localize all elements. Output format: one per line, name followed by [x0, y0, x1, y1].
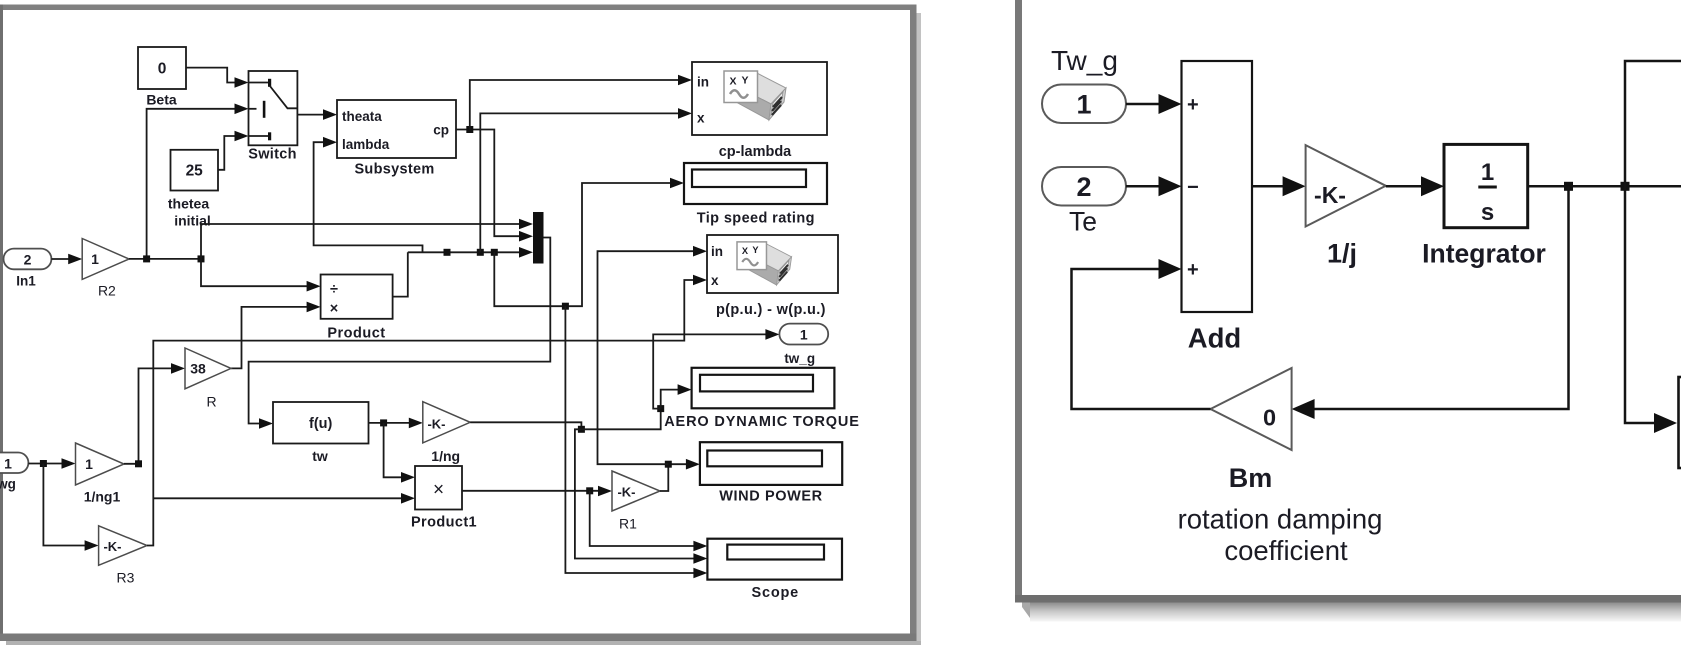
wire R1 out to WIND POWER: [660, 464, 687, 491]
svg-text:÷: ÷: [330, 282, 338, 298]
junction dot R1 out: [665, 461, 672, 468]
junction dot lambda 494: [491, 249, 498, 256]
svg-text:×: ×: [433, 480, 444, 501]
svg-text:Tip speed rating: Tip speed rating: [697, 210, 815, 226]
wire lambda branch up to Subsystem lambda: [314, 142, 423, 252]
mux block: [533, 212, 544, 264]
arrowhead f(u) in: [259, 418, 273, 429]
arrowhead Bm in (pointing left): [1292, 399, 1315, 419]
svg-text:-K-: -K-: [427, 416, 445, 431]
arrowhead Switch in1: [235, 77, 249, 88]
junction dot lambda 447: [444, 249, 451, 256]
svg-text:x: x: [711, 273, 719, 288]
svg-text:Subsystem: Subsystem: [354, 162, 434, 178]
arrowhead cp-lambda in: [678, 75, 692, 86]
svg-text:1: 1: [4, 455, 12, 471]
svg-text:×: ×: [330, 301, 338, 317]
right window frame left border: [1015, 0, 1022, 602]
xy-graph block cp-lambda: [692, 62, 827, 135]
svg-text:Tw_g: Tw_g: [1051, 45, 1118, 76]
svg-text:p(p.u.) - w(p.u.): p(p.u.) - w(p.u.): [716, 302, 826, 318]
constant Beta "0": [138, 47, 186, 89]
svg-text:-K-: -K-: [103, 539, 121, 554]
wire feedback from junction to Bm: [1312, 186, 1569, 409]
xy icon cp-lambda: [724, 71, 786, 120]
xy-graph block p(p.u.) - w(p.u.): [707, 235, 838, 293]
arrowhead Subsystem theta: [323, 109, 337, 120]
svg-text:Product1: Product1: [411, 515, 477, 531]
wire lambda main to mux in3: [408, 251, 520, 253]
display block Scope: [707, 539, 842, 580]
arrowhead mux in1: [519, 219, 533, 230]
arrowhead Subsystem lambda: [323, 137, 337, 148]
gain R "38": [185, 348, 231, 389]
inport In1 "2": [4, 249, 52, 270]
wire Product out riser: [393, 252, 408, 296]
wire Beta to Switch in1: [186, 68, 236, 83]
junction dot torque: [578, 426, 585, 433]
svg-text:cp-lambda: cp-lambda: [719, 144, 792, 160]
svg-text:R: R: [206, 394, 216, 410]
junction dot AERO: [657, 405, 664, 412]
arrowhead R in: [171, 363, 185, 374]
arrowhead R3 in: [85, 540, 99, 551]
svg-text:0: 0: [1263, 405, 1276, 431]
arrowhead Scope in3: [693, 568, 707, 579]
svg-text:R3: R3: [117, 570, 135, 586]
svg-text:1: 1: [91, 251, 99, 267]
svg-text:1: 1: [800, 327, 808, 343]
svg-text:Bm: Bm: [1229, 463, 1273, 493]
switch internal middle line and contact bar: [249, 108, 257, 110]
wire lambda down to Scope in3: [565, 306, 694, 573]
wire mux out to f(u): [249, 238, 551, 424]
gain 1/j "-K-": [1306, 145, 1386, 226]
product block Product1: [415, 466, 462, 510]
wire wg out to 1/ng1: [28, 463, 62, 465]
left window bottom shadow: [6, 641, 921, 645]
svg-text:R1: R1: [619, 516, 637, 532]
junction dot R2 out 1: [143, 255, 150, 262]
svg-text:In1: In1: [16, 274, 36, 289]
right window frame bottom border: [1015, 595, 1681, 603]
arrowhead mux in3: [519, 247, 533, 258]
svg-text:theata: theata: [342, 109, 382, 124]
display block Tip speed rating: [684, 163, 827, 204]
gain 1/ng1: [76, 443, 125, 485]
arrowhead Scope in1: [693, 541, 707, 552]
arrowhead 1/ng in: [409, 418, 423, 429]
wire branch down to Scope in1: [590, 491, 695, 546]
wire branch up right: [1625, 61, 1681, 186]
gain Bm "0" (pointing left): [1211, 368, 1292, 450]
wire cp up to cp-lambda in: [470, 80, 679, 130]
arrowhead Scope in2: [693, 553, 707, 564]
svg-text:0: 0: [158, 61, 167, 78]
arrowhead p-x in: [693, 275, 707, 286]
junction dot 565: [562, 303, 569, 310]
junction dot cp: [466, 126, 473, 133]
arrowhead 1/j in: [1283, 176, 1306, 196]
arrowhead tw_g: [765, 329, 779, 340]
arrowhead WIND POWER in: [686, 459, 700, 470]
junction dot R2 out 2: [198, 255, 205, 262]
svg-text:cp: cp: [433, 123, 449, 138]
wire f(u) out to 1/ng: [369, 422, 410, 424]
arrowhead Product1 in2: [401, 493, 415, 504]
switch internal input3 line and contact: [249, 135, 270, 137]
inport wg "1": [0, 453, 28, 474]
wire torque to Scope in2: [575, 429, 695, 558]
svg-text:−: −: [1187, 177, 1199, 199]
arrowhead Add in1: [1159, 94, 1182, 114]
wire Add out to 1/j: [1252, 185, 1288, 188]
svg-text:Scope: Scope: [752, 585, 800, 601]
svg-text:+: +: [1187, 94, 1199, 116]
junction dot Product1 out: [586, 487, 593, 494]
svg-text:1: 1: [1076, 90, 1091, 120]
integrator block 1/s: [1444, 144, 1528, 227]
junction dot integrator out 1: [1564, 182, 1573, 191]
svg-text:Product: Product: [327, 326, 385, 342]
svg-text:1/j: 1/j: [1327, 239, 1357, 269]
wire junction up to mux in1: [201, 224, 520, 259]
wire junction to tw_g outport: [653, 334, 766, 408]
svg-text:X: X: [730, 76, 737, 88]
svg-text:Add: Add: [1188, 323, 1241, 354]
svg-text:Y: Y: [752, 245, 759, 255]
partial block at right edge: [1679, 377, 1681, 468]
svg-text:f(u): f(u): [309, 416, 333, 432]
wire cp out: [456, 130, 520, 237]
svg-text:2: 2: [24, 251, 32, 267]
wire 1/j out to Integrator: [1386, 185, 1426, 188]
fcn block tw "f(u)": [273, 402, 369, 444]
left window frame right border: [910, 5, 917, 642]
svg-text:lambda: lambda: [342, 137, 390, 152]
arrowhead Integrator in: [1421, 176, 1444, 196]
product block Product: [321, 275, 393, 319]
arrowhead Switch in3: [235, 131, 249, 142]
junction dot 1/ng1 out: [135, 460, 142, 467]
arrowhead R2 in: [68, 254, 82, 265]
svg-text:-K-: -K-: [1314, 182, 1346, 208]
subsystem block Subsystem: [337, 100, 456, 158]
wire lambda up to cp-lambda x: [480, 113, 679, 252]
svg-text:tw_g: tw_g: [784, 351, 815, 366]
outport tw_g "1": [779, 324, 828, 345]
switch block Switch: [249, 71, 298, 145]
wire 1/ng1 out riser to R: [124, 368, 172, 463]
wire R2-junction up to Switch in2: [147, 109, 236, 259]
gain 1/ng: [423, 402, 470, 443]
arrowhead Product in2: [307, 302, 321, 313]
svg-text:thetea: thetea: [168, 196, 209, 212]
junction dot f(u) out: [380, 419, 387, 426]
wire torque right to AERO junction: [581, 409, 660, 430]
switch internal diagonal arm: [270, 86, 298, 109]
xy icon p-w: [737, 242, 792, 285]
inport 2 (Te): [1042, 167, 1126, 206]
wire inport1 to Add: [1126, 103, 1164, 106]
gain R2: [82, 239, 129, 280]
svg-text:R2: R2: [98, 283, 116, 299]
switch internal input1 line and contact: [249, 82, 270, 84]
svg-text:rotation damping: rotation damping: [1178, 504, 1383, 535]
arrowhead mux in2: [519, 231, 533, 242]
wire power branch up to p-in: [598, 251, 695, 464]
arrowhead AERO in: [678, 384, 692, 395]
arrowhead edge block in: [1654, 413, 1677, 433]
left window frame left border: [0, 5, 3, 641]
arrowhead Product in1: [307, 281, 321, 292]
svg-text:x: x: [697, 111, 705, 126]
svg-text:1: 1: [1481, 159, 1494, 186]
wire R out riser to Product in2: [231, 307, 307, 369]
svg-text:38: 38: [190, 360, 206, 376]
wire wg junction down to R3: [43, 464, 85, 546]
svg-text:AERO DYNAMIC TORQUE: AERO DYNAMIC TORQUE: [664, 414, 860, 430]
display block AERO DYNAMIC TORQUE: [692, 368, 835, 409]
svg-text:wg: wg: [0, 477, 16, 492]
arrowhead Product1 in1: [401, 472, 415, 483]
arrowhead Add in3: [1159, 259, 1182, 279]
svg-text:Beta: Beta: [146, 92, 177, 108]
svg-text:WIND POWER: WIND POWER: [719, 488, 822, 504]
svg-text:coefficient: coefficient: [1224, 535, 1348, 566]
svg-text:2: 2: [1076, 172, 1091, 202]
gain R3: [99, 526, 147, 566]
wire Switch out to Subsystem theta: [297, 114, 324, 116]
wire junction down to Product in1: [201, 259, 307, 286]
junction dot wg: [40, 460, 47, 467]
arrowhead R1 in: [598, 486, 612, 497]
svg-text:1/ng: 1/ng: [431, 448, 460, 464]
svg-text:+: +: [1187, 259, 1199, 281]
svg-text:X: X: [742, 246, 749, 256]
wire branch to Product1 in2: [153, 497, 402, 499]
gain R1: [612, 471, 660, 511]
wire In1 to R2: [51, 258, 69, 260]
svg-text:in: in: [697, 75, 709, 90]
wire Integrator out: [1528, 185, 1681, 188]
wire Bm out to Add in3: [1072, 269, 1211, 409]
wire R2 out: [129, 258, 201, 260]
junction dot integrator out 2: [1621, 182, 1630, 191]
left window right shadow: [917, 13, 922, 641]
wire R3 out long route to p-x: [147, 280, 694, 546]
svg-text:Te: Te: [1069, 207, 1097, 237]
svg-text:25: 25: [186, 163, 204, 180]
svg-text:in: in: [711, 244, 723, 259]
inport 1 (Tw_g): [1042, 85, 1126, 124]
svg-text:Switch: Switch: [248, 147, 297, 163]
arrowhead cp-lambda x: [678, 108, 692, 119]
wire branch down to edge block: [1625, 186, 1656, 423]
arrowhead p-in: [693, 246, 707, 257]
arrowhead Tip in: [670, 178, 684, 189]
svg-text:initial: initial: [174, 213, 211, 229]
wire 1/ng out to torque junction: [470, 422, 581, 429]
wire inport2 to Add: [1126, 185, 1164, 188]
display block WIND POWER: [700, 442, 842, 485]
sum block Add: [1182, 61, 1253, 312]
svg-text:-K-: -K-: [617, 485, 635, 500]
svg-text:s: s: [1481, 199, 1494, 226]
svg-text:tw: tw: [312, 448, 328, 464]
svg-text:Integrator: Integrator: [1422, 239, 1546, 269]
arrowhead 1/ng1 in: [62, 458, 76, 469]
svg-text:1: 1: [85, 456, 93, 472]
left window frame bottom border: [0, 634, 917, 642]
svg-text:1/ng1: 1/ng1: [84, 489, 121, 505]
constant thetea initial "25": [171, 150, 219, 191]
junction dot lambda 480: [477, 249, 484, 256]
wire junction up to AERO in: [661, 390, 679, 409]
left window frame top border: [0, 5, 917, 11]
arrowhead Add in2: [1159, 176, 1182, 196]
wire lambda down to Tip riser: [494, 183, 671, 306]
wire 25 to Switch in3: [218, 136, 236, 170]
svg-text:Y: Y: [742, 75, 749, 87]
wire f(u) branch down to Product1 in1: [384, 423, 402, 477]
arrowhead Switch in2: [235, 104, 249, 115]
wire Product1 out to R1: [462, 490, 599, 492]
